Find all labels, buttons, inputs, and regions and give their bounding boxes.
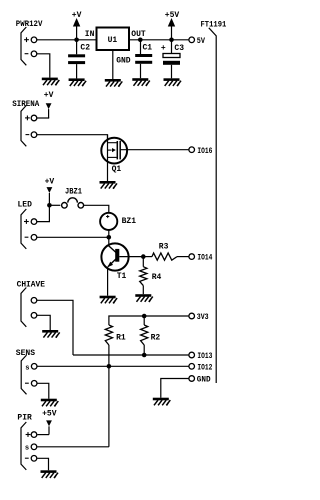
svg-text:+: +: [161, 44, 166, 53]
LED minus sign: [25, 236, 29, 238]
svg-text:IO12: IO12: [197, 362, 212, 372]
wire 3V3 row: [109, 316, 189, 325]
terminal IO16: [189, 147, 195, 153]
svg-text:C2: C2: [80, 43, 90, 52]
T1 base bar: [115, 249, 119, 262]
wire SIRENA- to Q1 drain: [37, 135, 108, 140]
LED plus sign: [24, 221, 29, 223]
+V supply arrow: [73, 18, 80, 27]
svg-text:C1: C1: [143, 44, 153, 53]
ground C1: [132, 78, 150, 86]
terminal CHIAVE 2: [31, 313, 37, 319]
svg-text:3V3: 3V3: [197, 312, 209, 322]
Q1 body tap with arrow: [108, 149, 112, 151]
svg-text:IO14: IO14: [197, 253, 212, 263]
wire Q1 gate to IO16: [120, 149, 188, 151]
svg-text:GND: GND: [116, 57, 131, 66]
node base/R3/R4 junction: [141, 254, 146, 259]
wire PWR+ to U1 IN: [37, 39, 97, 41]
buzzer BZ1 circle: [100, 213, 117, 230]
wire GND terminal to ground: [161, 379, 189, 398]
svg-text:+V: +V: [45, 177, 55, 186]
wire SIRENA+ to +V: [37, 117, 49, 119]
terminal 5V: [189, 37, 195, 43]
terminal GND: [189, 376, 195, 382]
terminal PIR s: [31, 444, 37, 450]
capacitor C1: [140, 40, 142, 54]
PIR plus sign: [26, 434, 31, 436]
wire IO13 row: [73, 354, 189, 356]
SENS minus sign: [25, 382, 29, 384]
ground U1: [105, 79, 123, 87]
terminal PIR -: [31, 456, 37, 462]
ground C2: [69, 78, 87, 86]
ground R4: [135, 294, 153, 302]
Q1 channel bar: [116, 141, 118, 159]
jumper JBZ1 right pin: [78, 203, 84, 209]
svg-text:T1: T1: [117, 272, 127, 281]
ground PIR-: [41, 470, 59, 478]
regulator U1 box: [97, 28, 130, 51]
resistor R3: [143, 256, 152, 258]
wire +V junction to jumper: [49, 204, 60, 206]
resistor R1: [105, 325, 112, 345]
terminal IO13: [189, 352, 195, 358]
ground GND terminal: [153, 398, 171, 406]
terminal SENS -: [31, 381, 37, 387]
svg-text:R1: R1: [116, 334, 126, 343]
node LED/JBZ1 +V junction: [47, 203, 52, 208]
terminal block LED bracket: [21, 209, 26, 249]
terminal block PIR bracket: [21, 422, 26, 470]
svg-text:R4: R4: [152, 273, 162, 282]
wire +V junction to LED+: [37, 205, 49, 221]
svg-text:JBZ1: JBZ1: [65, 188, 82, 197]
buzzer BZ1 plus sign: [106, 216, 109, 218]
wire PIR- to ground: [37, 458, 48, 470]
terminal block CHIAVE bracket: [21, 288, 26, 327]
svg-text:BZ1: BZ1: [122, 217, 137, 226]
svg-text:CHIAVE: CHIAVE: [17, 280, 46, 289]
terminal LED +: [31, 219, 37, 225]
svg-text:FT1191: FT1191: [201, 21, 227, 30]
wire PIR+ to +5V: [37, 434, 49, 436]
svg-text:PWR12V: PWR12V: [16, 20, 43, 29]
terminal block PWR12V bracket: [21, 27, 26, 65]
node R1/SENS/IO12/PIR junction: [107, 364, 112, 369]
terminal block SIRENA bracket: [21, 105, 26, 146]
capacitor C2: [76, 40, 78, 55]
wire SENS s to IO12: [37, 365, 188, 367]
PWR12V minus sign: [25, 53, 29, 55]
PIR minus sign: [25, 457, 29, 459]
terminal SIRENA +: [31, 115, 37, 121]
jumper JBZ1 left pin: [62, 203, 68, 209]
node +V / C2 junction: [74, 38, 79, 43]
terminal PWR12V +: [31, 37, 37, 43]
terminal SENS s: [31, 364, 37, 370]
terminal LED -: [31, 235, 37, 241]
ground C3: [164, 78, 182, 86]
ground PWR-: [42, 78, 60, 86]
T1 emitter diagonal: [108, 259, 116, 267]
+V supply arrow LED: [47, 187, 53, 193]
terminal IO14: [189, 254, 195, 260]
wire SENS- to ground: [37, 383, 49, 398]
terminal IO12: [189, 364, 195, 370]
wire jumper to BZ1: [84, 205, 109, 212]
node C1 junction: [138, 38, 143, 43]
svg-text:GND: GND: [197, 375, 211, 385]
terminal PIR +: [31, 432, 37, 438]
terminal 3V3: [189, 313, 195, 319]
ground Q1 source: [100, 181, 118, 189]
wire CHIAVE2 to ground: [37, 315, 50, 330]
node R2 bottom junction: [142, 353, 147, 358]
node C3 junction: [169, 38, 174, 43]
svg-text:5V: 5V: [197, 36, 206, 46]
wire R1 bottom to IO12 row and PIR: [108, 345, 110, 447]
svg-text:OUT: OUT: [131, 30, 146, 39]
+V supply arrow SIRENA: [46, 103, 52, 109]
svg-text:s: s: [25, 364, 29, 372]
board FT1191 bracket: [209, 28, 216, 383]
svg-text:+V: +V: [44, 91, 54, 100]
wire T1 base to node: [119, 256, 143, 258]
svg-text:IN: IN: [85, 30, 95, 39]
resistor R4: [142, 257, 144, 267]
resistor R2: [143, 316, 145, 325]
wire T1 emitter to ground: [107, 267, 109, 296]
svg-text:+5V: +5V: [42, 409, 57, 418]
wire LED- to collector node: [37, 236, 109, 238]
svg-text:C3: C3: [174, 44, 184, 53]
node R2 top junction: [142, 314, 147, 319]
SIRENA plus sign: [25, 117, 30, 119]
ground SENS-: [41, 399, 59, 407]
+5V supply arrow PIR: [46, 420, 52, 426]
T1 collector diagonal: [108, 245, 116, 252]
wire CHIAVE1 to IO13 row: [37, 300, 73, 355]
Q1 source tap: [108, 156, 117, 158]
jumper JBZ1 arc: [68, 198, 78, 203]
svg-text:IO16: IO16: [197, 146, 212, 156]
wire PWR- down: [37, 54, 50, 78]
U1 GND pin wire: [112, 50, 114, 79]
transistor Q1 body circle: [101, 138, 127, 164]
svg-text:R3: R3: [159, 243, 169, 252]
wire BZ1 to collector node: [108, 230, 110, 244]
PWR12V plus sign: [24, 39, 29, 41]
transistor Q1 drain-source line: [107, 135, 109, 182]
ground T1 emitter: [100, 296, 118, 304]
transistor T1 body circle: [101, 243, 128, 270]
svg-text:+5V: +5V: [165, 11, 180, 20]
T1 emitter arrowhead: [107, 262, 113, 268]
node collector junction: [107, 235, 112, 240]
svg-text:SIRENA: SIRENA: [12, 100, 39, 109]
wire U1 OUT to 5V terminal: [129, 39, 189, 41]
SIRENA minus sign: [26, 134, 30, 136]
terminal PWR12V -: [31, 51, 37, 57]
Q1 drain tap: [108, 142, 117, 144]
svg-text:IO13: IO13: [197, 351, 212, 361]
svg-text:Q1: Q1: [112, 165, 122, 174]
capacitor C3 electrolytic: [171, 40, 173, 54]
svg-text:LED: LED: [18, 201, 33, 210]
svg-text:PIR: PIR: [17, 414, 32, 423]
+5V supply arrow: [168, 18, 175, 27]
terminal SIRENA -: [31, 132, 37, 138]
svg-text:s: s: [25, 444, 29, 452]
svg-text:R2: R2: [151, 334, 161, 343]
ground CHIAVE: [42, 330, 60, 338]
Q1 gate bar: [119, 141, 121, 159]
wire PIR s to node: [37, 446, 109, 448]
svg-text:U1: U1: [108, 36, 118, 45]
terminal block SENS bracket: [21, 355, 26, 394]
terminal CHIAVE 1: [31, 298, 37, 304]
